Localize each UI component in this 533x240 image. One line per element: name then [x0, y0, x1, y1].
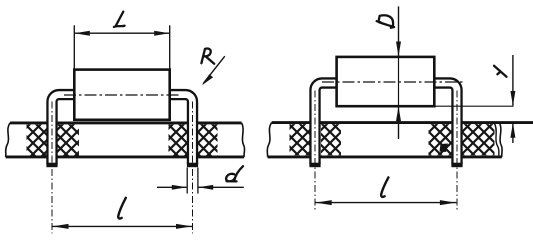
dimension l line (left view)	[52, 225, 193, 227]
right lead center line / l extension (left view)	[192, 102, 194, 234]
dimension d extension line left	[186, 168, 188, 194]
board hatch section D (left view)	[197, 124, 218, 155]
label l (left view)	[118, 198, 126, 219]
board break line right (left view)	[242, 123, 245, 157]
dimension D arrowhead lower	[396, 106, 401, 121]
left lead wire outer (left view)	[52, 95, 74, 165]
body axis center line (left view)	[64, 94, 180, 96]
board hatch section H (right view)	[463, 124, 495, 155]
solder blob in hatch G (right view)	[440, 144, 449, 153]
board break line left (right view)	[267, 123, 271, 157]
left lead wire outer (right view)	[315, 83, 337, 164]
label l (right view)	[381, 177, 388, 197]
dimension D line through body	[398, 57, 400, 106]
gap dimension line lower	[512, 123, 514, 143]
dimension l arrowhead left (left view)	[52, 224, 68, 229]
dimension L extension line right	[169, 25, 171, 68]
dimension L arrowhead left	[75, 31, 90, 36]
dimension D line lower	[398, 106, 400, 139]
right lead wire inner white (right view)	[434, 83, 457, 164]
board break line right (right view)	[499, 123, 502, 157]
dimension l line (right view)	[315, 202, 456, 204]
board hatch section A (left view)	[27, 124, 50, 155]
left lead center line / l extension (left view)	[51, 102, 53, 234]
dimension L line	[74, 32, 169, 34]
left lead wire inner white (left view)	[52, 95, 74, 165]
dimension D arrowhead upper	[396, 42, 401, 57]
dimension L arrowhead right	[154, 31, 169, 36]
label L	[114, 12, 125, 27]
label R	[201, 49, 214, 64]
dimension d extension line right	[197, 168, 199, 194]
right lead wire outer (right view)	[434, 83, 457, 164]
PCB board bottom edge (left view)	[6, 155, 245, 158]
label d	[226, 166, 243, 181]
right lead tip cap (left view)	[187, 163, 198, 168]
label 1 (gap value)	[494, 66, 507, 77]
PCB board bottom edge (right view)	[268, 155, 502, 158]
dimension L extension line left	[73, 25, 75, 68]
gap dimension arrowhead upper	[510, 91, 515, 106]
PCB board top edge (left view)	[10, 121, 242, 124]
dimension d arrowhead left	[172, 185, 187, 190]
dimension l arrowhead right (left view)	[176, 224, 192, 229]
board hatch section E (right view)	[290, 124, 311, 155]
left lead center line / l extension (right view)	[314, 91, 316, 211]
dimension D line upper	[398, 6, 400, 56]
component body (left view)	[74, 70, 169, 120]
board hatch section C (left view)	[169, 124, 189, 155]
right lead center line / l extension (right view)	[456, 91, 458, 211]
board hatch section G (right view)	[429, 124, 453, 155]
gap dimension line upper	[512, 55, 514, 106]
board hatch section F (right view)	[321, 124, 341, 155]
leader line R	[203, 56, 225, 83]
component body (right view)	[337, 57, 435, 106]
right lead wire inner white (left view)	[170, 95, 193, 165]
hatch H wavy right edge (right view)	[495, 124, 500, 157]
board break line left (left view)	[6, 123, 10, 157]
left lead tip cap (right view)	[309, 163, 320, 168]
dimension l arrowhead left (right view)	[316, 200, 332, 205]
gap dimension arrowhead lower	[510, 123, 515, 138]
dimension l arrowhead right (right view)	[440, 200, 456, 205]
dimension d line left segment	[157, 186, 187, 188]
right lead tip cap (right view)	[451, 163, 462, 168]
label D	[377, 15, 394, 28]
gap dimension extension line (body bottom extended)	[434, 105, 513, 107]
right lead wire outer (left view)	[170, 95, 193, 165]
PCB board top edge (right view)	[272, 121, 533, 124]
left lead wire inner white (right view)	[315, 83, 337, 164]
left lead tip cap (left view)	[46, 163, 57, 168]
body axis center line (right view)	[322, 81, 465, 83]
board hatch section B (left view)	[56, 124, 79, 155]
dimension d line right segment	[198, 186, 244, 188]
dimension d arrowhead right	[198, 185, 213, 190]
leader arrowhead R	[202, 74, 213, 85]
